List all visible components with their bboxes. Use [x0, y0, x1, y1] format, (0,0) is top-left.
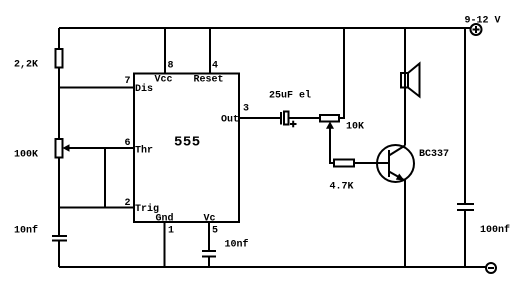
resistor 4.7K body [334, 160, 354, 167]
wire wiper down to 4.7K [330, 128, 334, 163]
wire pin 2 Trig to left rail [59, 207, 134, 209]
wire pin 3 Out [239, 117, 280, 119]
wire pin 7 Dis to left rail [59, 87, 134, 89]
capacitor 25uF electrolytic positive plate box [284, 112, 289, 125]
potentiometer 100K wiper arrow [63, 144, 70, 151]
svg-text:5: 5 [212, 226, 218, 237]
svg-text:Out: Out [221, 115, 239, 126]
svg-text:Vc: Vc [204, 214, 216, 225]
plus sign of 25uF capacitor [290, 123, 297, 125]
capacitor 100nf plates [457, 203, 474, 205]
battery negative terminal [486, 263, 496, 273]
resistor 2,2K body [56, 49, 63, 68]
wire left rail between 2,2K and 100K pot [58, 68, 60, 140]
transistor base bar [388, 150, 390, 177]
svg-text:Thr: Thr [135, 145, 153, 157]
battery positive terminal 9-12V [471, 24, 482, 35]
speaker magnet box [401, 73, 408, 88]
op-amp U1 555 IC body [134, 74, 239, 223]
svg-text:4: 4 [212, 61, 218, 72]
transistor emitter arrowhead [396, 174, 405, 181]
svg-text:Vcc: Vcc [155, 75, 173, 86]
svg-text:Gnd: Gnd [156, 213, 174, 225]
capacitor 25uF electrolytic negative plate [280, 112, 282, 125]
svg-text:7: 7 [125, 76, 131, 87]
wire right rail upper segment [464, 28, 466, 204]
speaker cone [408, 64, 420, 97]
wire pin 5 Vc upper segment [208, 222, 210, 251]
svg-text:Dis: Dis [135, 83, 153, 95]
capacitor 10nf left plates [52, 235, 67, 237]
svg-text:3: 3 [243, 104, 249, 115]
svg-text:10nf: 10nf [225, 239, 249, 251]
wire pin 8 Vcc to top rail [164, 28, 166, 74]
wire pin 4 Reset to top rail [209, 28, 211, 74]
svg-text:2,2K: 2,2K [14, 60, 38, 71]
transistor collector lead [389, 146, 405, 156]
wire pin 1 Gnd to bottom rail [164, 222, 166, 267]
transistor Q1 BC337 circle [377, 145, 414, 182]
wire 25uF cap to 10K pot [289, 117, 321, 119]
wire left rail between pot and 10nf cap [58, 158, 60, 237]
potentiometer 100K body [56, 139, 63, 158]
svg-text:100K: 100K [14, 150, 38, 161]
capacitor 10nf pin5 plates [202, 250, 216, 252]
svg-text:2: 2 [125, 198, 131, 209]
potentiometer 10K wiper arrow [326, 122, 334, 129]
svg-text:6: 6 [125, 138, 131, 149]
wire left rail upper segment [58, 28, 60, 49]
svg-text:100nf: 100nf [480, 224, 510, 236]
wire 10K pot right end up to top rail [339, 28, 344, 118]
wire pin 6 Thr to wiper [66, 147, 134, 149]
transistor emitter lead [389, 172, 404, 181]
svg-text:9-12 V: 9-12 V [465, 16, 501, 27]
svg-text:8: 8 [168, 61, 174, 72]
svg-text:10K: 10K [346, 122, 364, 133]
svg-text:BC337: BC337 [419, 149, 449, 160]
svg-text:1: 1 [168, 226, 174, 237]
wire bottom ground rail [59, 266, 486, 268]
wire emitter down to bottom rail [404, 180, 406, 267]
svg-text:4.7K: 4.7K [330, 182, 354, 193]
wire right rail lower segment [464, 210, 466, 267]
svg-text:555: 555 [174, 135, 201, 151]
wire pin 5 cap to bottom rail [208, 257, 210, 268]
wire top positive rail [59, 27, 470, 29]
wire left rail lower segment [58, 241, 60, 268]
wire 4.7K to transistor base [354, 162, 389, 164]
svg-text:25uF el: 25uF el [269, 90, 311, 102]
wire wiper junction down to Trig wire [104, 148, 106, 208]
svg-text:10nf: 10nf [14, 225, 38, 237]
svg-text:Reset: Reset [194, 75, 224, 86]
potentiometer 10K body [320, 115, 339, 122]
wire collector up through speaker to top rail [404, 28, 406, 146]
